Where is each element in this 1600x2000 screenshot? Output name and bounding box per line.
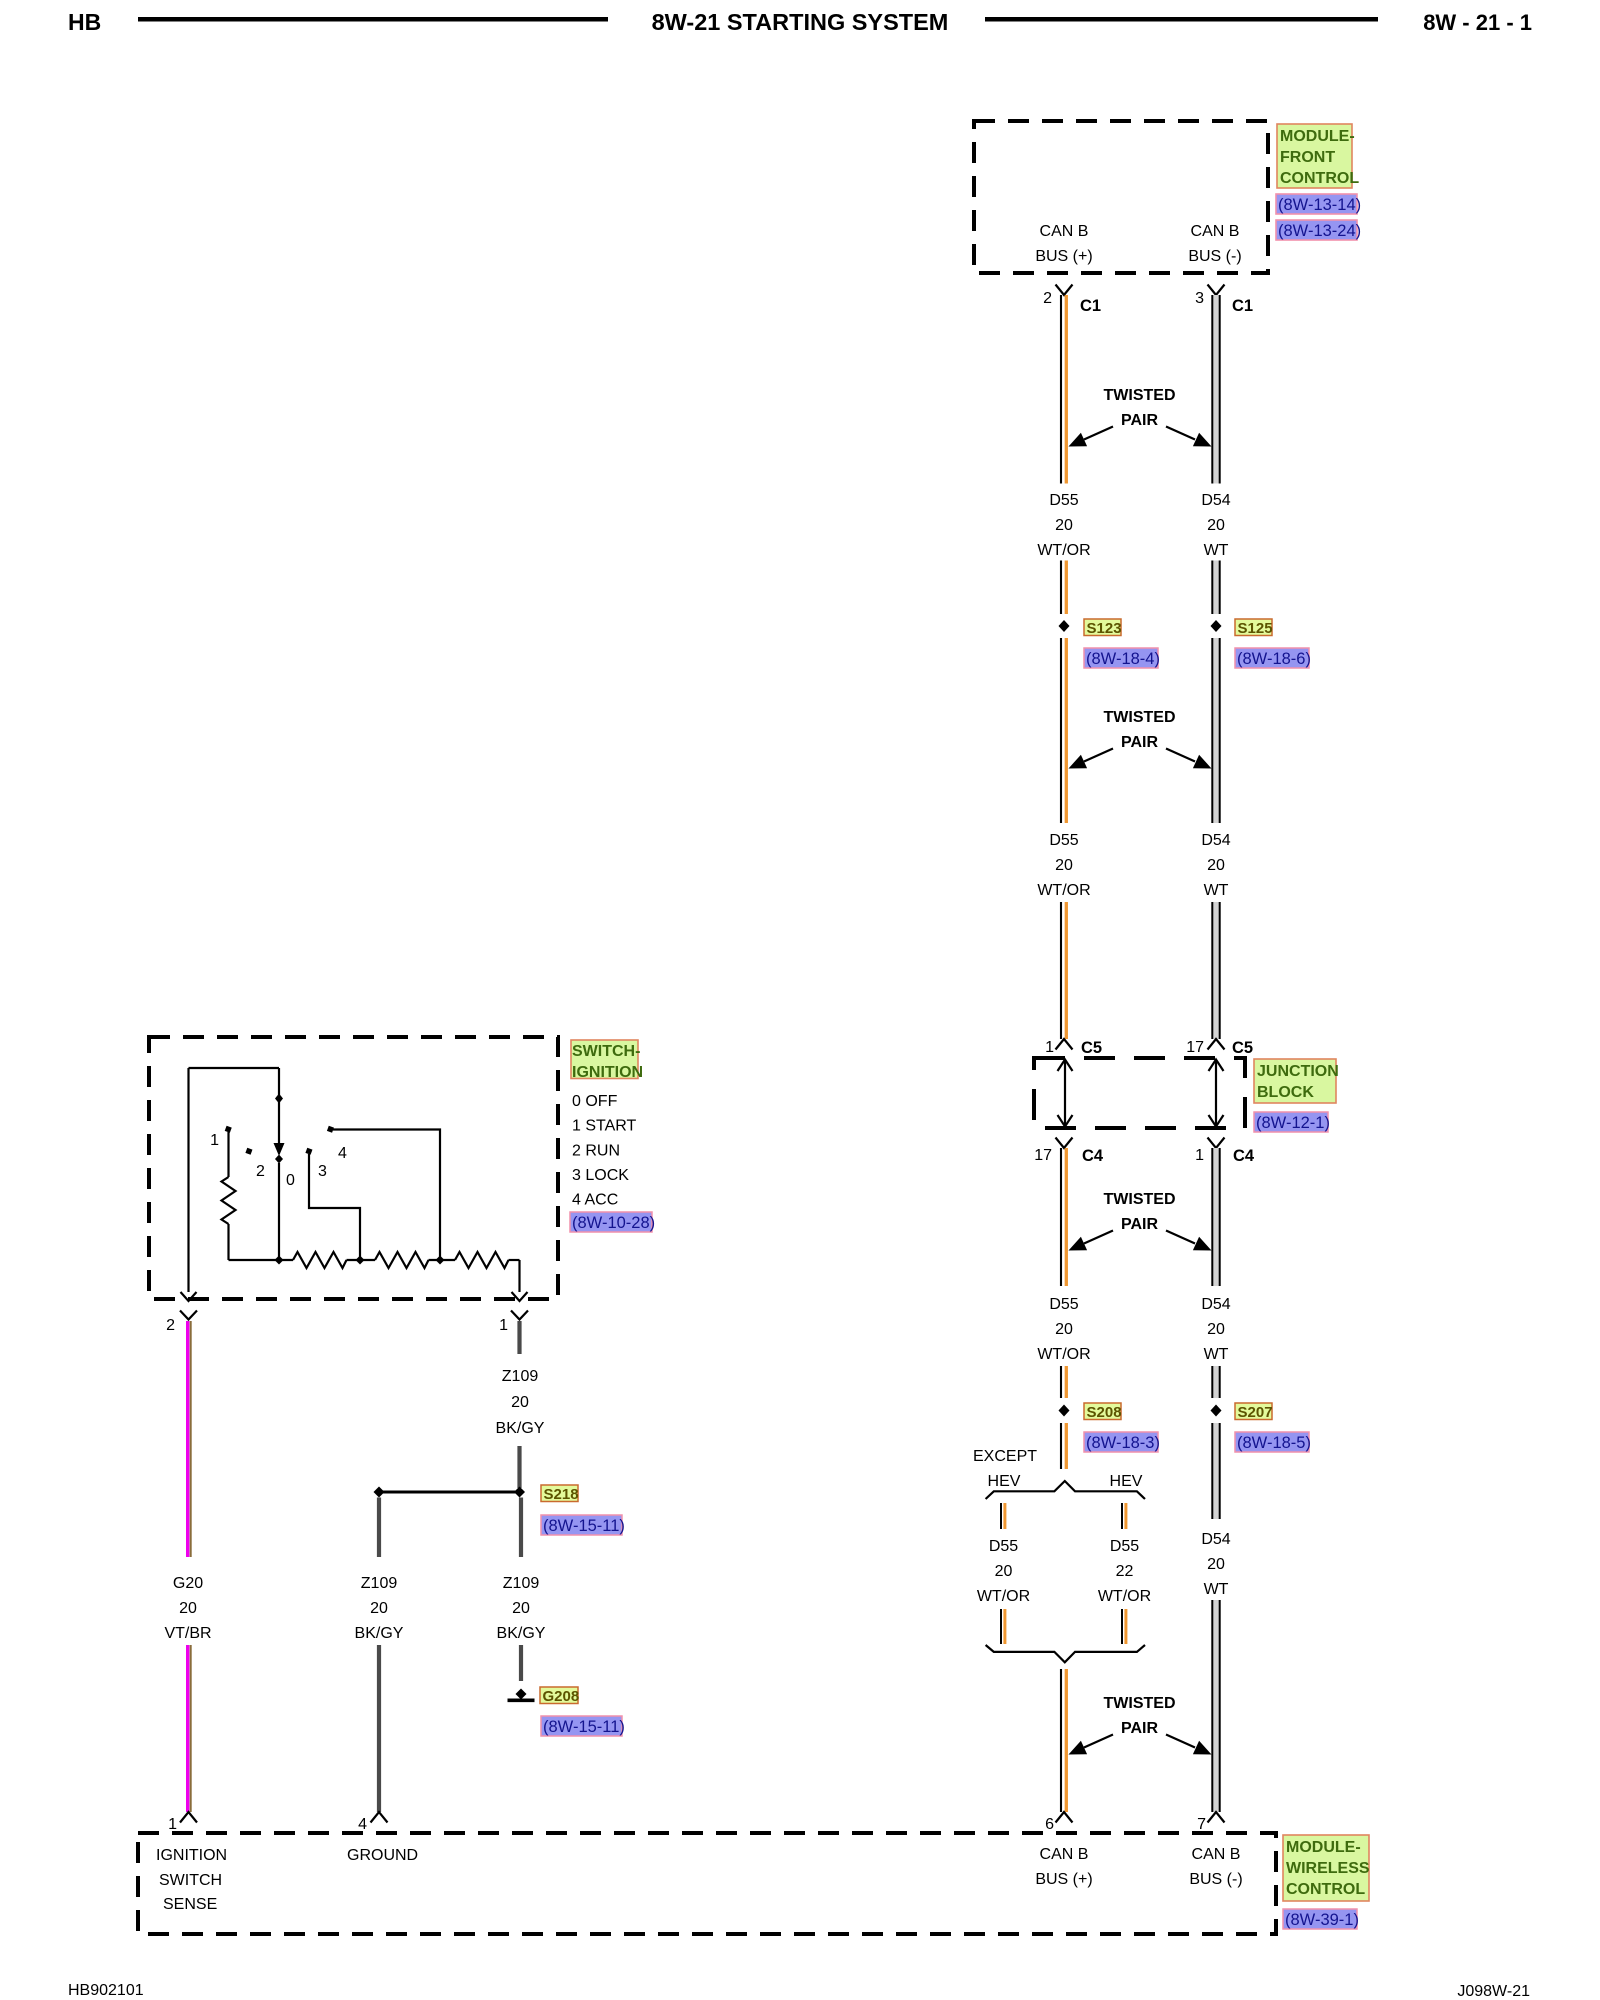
component name SWITCH-IGNITION — [571, 1040, 643, 1081]
svg-text:TWISTED: TWISTED — [1104, 387, 1176, 404]
reference (8W-18-3) — [1084, 1432, 1160, 1452]
wire D55 WT/OR segment A (pin2 C1 down) — [1061, 295, 1066, 484]
connector fork pin 1 C4 — [1208, 1138, 1225, 1149]
svg-text:1: 1 — [210, 1132, 219, 1149]
svg-text:WT: WT — [1204, 542, 1229, 559]
pin label CAN B BUS (-) (bottom) — [1189, 1846, 1242, 1888]
component name MODULE-WIRELESS CONTROL — [1283, 1835, 1370, 1901]
wire D55 WT/OR segment H (merged, to pin 6) — [1061, 1669, 1066, 1812]
ground G208 bar — [508, 1699, 535, 1703]
svg-text:3 LOCK: 3 LOCK — [572, 1167, 629, 1184]
connector fork pin 7 — [1208, 1812, 1225, 1823]
connector fork switch pin 2 — [180, 1311, 197, 1320]
svg-text:20: 20 — [512, 1600, 530, 1617]
wire Z109 BK/GY segment B — [517, 1446, 521, 1488]
svg-text:20: 20 — [1055, 517, 1073, 534]
svg-text:WT: WT — [1204, 882, 1229, 899]
svg-text:FRONT: FRONT — [1280, 149, 1335, 166]
wire D55 WT/OR segment B — [1061, 561, 1066, 615]
switch pin 1 internal wire — [518, 1260, 520, 1292]
svg-text:S218: S218 — [544, 1486, 579, 1503]
svg-text:CAN B: CAN B — [1191, 223, 1240, 240]
svg-text:(8W-39-1): (8W-39-1) — [1285, 1911, 1359, 1929]
svg-text:CONTROL: CONTROL — [1286, 1881, 1365, 1898]
svg-text:J098W-21: J098W-21 — [1457, 1983, 1530, 2000]
HEV branch wire right upper segment — [1122, 1503, 1126, 1529]
wire D54 WT segment D — [1212, 902, 1219, 1039]
wire label D55 22 WT/OR (right branch) — [1098, 1538, 1151, 1605]
svg-text:2 RUN: 2 RUN — [572, 1142, 620, 1159]
junction block dashed box — [1034, 1058, 1245, 1128]
splice S208 diamond — [1059, 1405, 1070, 1417]
svg-text:(8W-13-24): (8W-13-24) — [1278, 222, 1361, 240]
switch contact 1 dot — [225, 1126, 232, 1133]
module-front control pin label CAN B BUS (-) — [1188, 223, 1241, 265]
svg-text:SWITCH: SWITCH — [159, 1872, 222, 1889]
switch position legend — [572, 1093, 637, 1209]
resistor R2 (horizontal zigzag) — [293, 1252, 347, 1268]
ground label G208 — [540, 1687, 579, 1705]
svg-text:Z109: Z109 — [503, 1575, 540, 1592]
svg-text:(8W-18-5): (8W-18-5) — [1237, 1434, 1311, 1452]
switch wiper arrowhead — [274, 1143, 285, 1156]
wire label D55 20 WT/OR (stack 2) — [1037, 832, 1090, 899]
svg-text:(8W-15-11): (8W-15-11) — [543, 1517, 625, 1535]
svg-text:C1: C1 — [1080, 297, 1101, 315]
junction diamond rail at contact 3 branch — [356, 1256, 365, 1265]
switch contact 2 dot — [245, 1148, 252, 1155]
connector fork pin 3 C1 — [1208, 285, 1225, 296]
splice S207 diamond — [1211, 1405, 1222, 1417]
svg-text:Z109: Z109 — [361, 1575, 398, 1592]
svg-text:20: 20 — [995, 1563, 1013, 1580]
svg-text:1: 1 — [1195, 1147, 1204, 1164]
twisted pair callout 3 — [1069, 1191, 1212, 1251]
svg-text:TWISTED: TWISTED — [1104, 1191, 1176, 1208]
svg-text:BLOCK: BLOCK — [1257, 1084, 1314, 1101]
splice label S123 — [1084, 619, 1122, 637]
wire label Z109 20 BK/GY (upper) — [496, 1368, 545, 1437]
svg-text:D54: D54 — [1201, 1296, 1230, 1313]
svg-text:20: 20 — [1207, 1321, 1225, 1338]
svg-text:(8W-18-6): (8W-18-6) — [1237, 650, 1311, 668]
svg-text:WT: WT — [1204, 1346, 1229, 1363]
svg-text:C4: C4 — [1082, 1147, 1104, 1165]
svg-text:20: 20 — [370, 1600, 388, 1617]
svg-text:WT/OR: WT/OR — [1037, 882, 1090, 899]
svg-text:SENSE: SENSE — [163, 1896, 217, 1913]
svg-text:BK/GY: BK/GY — [496, 1420, 545, 1437]
reference (8W-15-11) (G208) — [541, 1716, 625, 1736]
svg-text:PAIR: PAIR — [1121, 734, 1158, 751]
svg-text:(8W-10-28): (8W-10-28) — [572, 1214, 655, 1232]
svg-text:Z109: Z109 — [502, 1368, 539, 1385]
svg-text:(8W-15-11): (8W-15-11) — [543, 1718, 625, 1736]
HEV branch wire left lower segment — [1001, 1609, 1005, 1644]
svg-text:20: 20 — [1055, 1321, 1073, 1338]
svg-text:HB: HB — [68, 9, 101, 35]
svg-text:22: 22 — [1116, 1563, 1134, 1580]
svg-text:0: 0 — [286, 1172, 295, 1189]
svg-text:BUS (-): BUS (-) — [1189, 1871, 1242, 1888]
svg-text:1 START: 1 START — [572, 1118, 637, 1135]
connector fork pin 1 C5 — [1056, 1039, 1073, 1050]
wire label D54 20 WT (stack 4) — [1201, 1531, 1230, 1598]
svg-text:CAN B: CAN B — [1040, 1846, 1089, 1863]
svg-text:GROUND: GROUND — [347, 1847, 418, 1864]
wire G20 VT/BR segment B — [188, 1645, 191, 1812]
svg-text:3: 3 — [318, 1163, 327, 1180]
svg-text:(8W-13-14): (8W-13-14) — [1278, 196, 1361, 214]
arrowhead into box edge (pin 1) — [512, 1292, 528, 1301]
svg-text:G20: G20 — [173, 1575, 203, 1592]
svg-text:1: 1 — [168, 1816, 177, 1833]
splice label S208 — [1084, 1403, 1122, 1421]
switch top rail wire — [189, 1067, 280, 1069]
wire label D54 20 WT (stack 1) — [1201, 492, 1230, 559]
twisted pair callout 1 — [1069, 387, 1212, 447]
svg-text:20: 20 — [1207, 1556, 1225, 1573]
wire label D54 20 WT (stack 2) — [1201, 832, 1230, 899]
wire D55 WT/OR segment E (below C4) — [1061, 1148, 1066, 1286]
connector fork pin 2 C1 — [1056, 285, 1073, 296]
svg-text:1: 1 — [499, 1317, 508, 1334]
reference (8W-13-24) — [1276, 220, 1361, 240]
wire label D55 20 WT/OR (left branch) — [977, 1538, 1030, 1605]
svg-text:4 ACC: 4 ACC — [572, 1192, 618, 1209]
svg-text:WT: WT — [1204, 1581, 1229, 1598]
switch-ignition dashed box — [149, 1037, 558, 1299]
svg-text:VT/BR: VT/BR — [164, 1625, 211, 1642]
resistor R1 (vertical zigzag) — [222, 1177, 236, 1224]
junction block internal through-arrow left — [1058, 1060, 1073, 1127]
svg-text:C4: C4 — [1233, 1147, 1255, 1165]
pin label CAN B BUS (+) (bottom) — [1035, 1846, 1092, 1888]
svg-text:8W - 21 - 1: 8W - 21 - 1 — [1423, 10, 1532, 35]
header rule right — [985, 17, 1378, 22]
splice S125 diamond — [1211, 620, 1222, 632]
svg-text:1: 1 — [1045, 1039, 1054, 1056]
svg-text:S208: S208 — [1087, 1404, 1122, 1421]
wire D54 WT segment A (pin3 C1 down) — [1212, 295, 1219, 484]
svg-text:PAIR: PAIR — [1121, 412, 1158, 429]
svg-text:IGNITION: IGNITION — [572, 1064, 643, 1081]
svg-text:EXCEPT: EXCEPT — [973, 1448, 1037, 1465]
svg-text:HB902101: HB902101 — [68, 1982, 144, 1999]
svg-text:BUS (+): BUS (+) — [1035, 248, 1092, 265]
wire from contact 4 right and down — [333, 1130, 440, 1261]
junction diamond on wiper feed — [275, 1094, 283, 1104]
switch pin 2 internal wire — [187, 1068, 189, 1292]
svg-text:IGNITION: IGNITION — [156, 1847, 227, 1864]
svg-text:CAN B: CAN B — [1192, 1846, 1241, 1863]
reference (8W-39-1) — [1283, 1909, 1359, 1929]
svg-text:C5: C5 — [1232, 1039, 1253, 1057]
wire label Z109 20 BK/GY (left branch) — [355, 1575, 404, 1642]
splice label S207 — [1235, 1403, 1273, 1421]
svg-text:S207: S207 — [1238, 1404, 1273, 1421]
module-wireless control dashed box — [138, 1833, 1276, 1934]
svg-text:2: 2 — [256, 1163, 265, 1180]
reference (8W-18-5) — [1235, 1432, 1311, 1452]
wire label D55 20 WT/OR (stack 3) — [1037, 1296, 1090, 1363]
svg-text:20: 20 — [1055, 857, 1073, 874]
svg-text:17: 17 — [1186, 1039, 1204, 1056]
splice S123 diamond — [1059, 620, 1070, 632]
wire Z109 BK/GY left branch lower segment (to pin 4) — [377, 1645, 381, 1812]
svg-text:C5: C5 — [1081, 1039, 1102, 1057]
wire D54 WT segment B — [1212, 561, 1219, 615]
twisted pair callout 4 — [1069, 1695, 1212, 1755]
splice S218 diamond left — [374, 1487, 385, 1498]
svg-text:17: 17 — [1034, 1147, 1052, 1164]
wire label Z109 20 BK/GY (right branch) — [497, 1575, 546, 1642]
splice label S218 — [541, 1485, 579, 1503]
splice label S125 — [1235, 619, 1273, 637]
wire D54 WT segment E (below C4) — [1212, 1148, 1219, 1286]
arrowhead into box edge (pin 2) — [181, 1292, 197, 1301]
wire split brace — [986, 1481, 1145, 1499]
svg-text:D55: D55 — [989, 1538, 1018, 1555]
switch contact 3 dot — [305, 1148, 312, 1155]
connector fork pin 4 (bottom box) — [371, 1812, 388, 1823]
svg-text:4: 4 — [338, 1145, 347, 1162]
wire from contact 1 to resistor — [227, 1132, 229, 1177]
reference (8W-13-14) — [1276, 194, 1361, 214]
svg-text:20: 20 — [1207, 857, 1225, 874]
svg-text:JUNCTION: JUNCTION — [1257, 1063, 1339, 1080]
svg-text:SWITCH-: SWITCH- — [572, 1043, 640, 1060]
switch bottom rail left segment — [229, 1259, 294, 1261]
wire Z109 BK/GY left branch upper segment — [377, 1498, 381, 1558]
connector fork pin 17 C4 — [1056, 1138, 1073, 1149]
connector fork switch pin 1 — [511, 1311, 528, 1320]
wire merge brace — [986, 1645, 1145, 1662]
wire label G20 20 VT/BR — [164, 1575, 211, 1642]
svg-text:8W-21 STARTING SYSTEM: 8W-21 STARTING SYSTEM — [652, 9, 949, 35]
svg-text:2: 2 — [1043, 290, 1052, 307]
reference (8W-12-1) — [1254, 1112, 1330, 1132]
svg-text:PAIR: PAIR — [1121, 1720, 1158, 1737]
svg-text:D55: D55 — [1110, 1538, 1139, 1555]
twisted pair callout 2 — [1069, 709, 1212, 769]
bottom rail segment 4 — [509, 1259, 520, 1261]
reference (8W-10-28) — [570, 1212, 655, 1232]
wire D55 WT/OR segment D — [1061, 902, 1066, 1039]
svg-text:WT/OR: WT/OR — [1037, 542, 1090, 559]
svg-text:BUS (+): BUS (+) — [1035, 1871, 1092, 1888]
connector fork pin 17 C5 — [1208, 1039, 1225, 1050]
svg-text:HEV: HEV — [988, 1473, 1021, 1490]
HEV branch wire left upper segment — [1001, 1503, 1005, 1529]
svg-text:BUS (-): BUS (-) — [1188, 248, 1241, 265]
resistor R4 (horizontal zigzag) — [455, 1252, 509, 1268]
svg-text:D54: D54 — [1201, 492, 1230, 509]
svg-text:20: 20 — [179, 1600, 197, 1617]
svg-text:PAIR: PAIR — [1121, 1216, 1158, 1233]
wire Z109 BK/GY segment A (from switch pin 1) — [517, 1321, 521, 1354]
svg-text:C1: C1 — [1232, 297, 1253, 315]
svg-text:S123: S123 — [1087, 620, 1122, 637]
wire Z109 BK/GY right branch middle segment — [519, 1498, 523, 1558]
svg-text:G208: G208 — [543, 1688, 580, 1705]
svg-text:D55: D55 — [1049, 1296, 1078, 1313]
svg-text:BK/GY: BK/GY — [355, 1625, 404, 1642]
svg-text:D54: D54 — [1201, 832, 1230, 849]
module-front control dashed box — [974, 121, 1268, 273]
component name MODULE-FRONT CONTROL — [1277, 124, 1359, 188]
header rule left — [138, 17, 608, 22]
junction diamond rail at wiper — [275, 1256, 284, 1265]
svg-text:3: 3 — [1195, 290, 1204, 307]
wire label D54 20 WT (stack 3) — [1201, 1296, 1230, 1363]
wire from contact 3 down and over — [309, 1154, 360, 1260]
svg-text:D55: D55 — [1049, 832, 1078, 849]
svg-text:TWISTED: TWISTED — [1104, 1695, 1176, 1712]
reference (8W-15-11) (S218) — [541, 1515, 625, 1535]
svg-text:S125: S125 — [1238, 620, 1273, 637]
wire D54 WT segment G — [1212, 1423, 1219, 1519]
connector fork pin 1 (bottom box) — [180, 1812, 197, 1823]
svg-text:CAN B: CAN B — [1040, 223, 1089, 240]
svg-text:WT/OR: WT/OR — [1037, 1346, 1090, 1363]
connector fork pin 6 — [1056, 1812, 1073, 1823]
svg-text:(8W-18-3): (8W-18-3) — [1086, 1434, 1160, 1452]
switch wiper feed wire — [278, 1068, 280, 1143]
reference (8W-18-6) — [1235, 648, 1311, 668]
wire Z109 BK/GY right branch lower segment (to ground) — [519, 1645, 523, 1681]
bottom rail segment 2 — [347, 1259, 376, 1261]
svg-text:WT/OR: WT/OR — [977, 1588, 1030, 1605]
switch contact 4 dot — [327, 1126, 334, 1133]
svg-text:WIRELESS: WIRELESS — [1286, 1860, 1370, 1877]
svg-text:0 OFF: 0 OFF — [572, 1093, 618, 1110]
switch wiper tip diamond (position 0) — [275, 1155, 283, 1164]
svg-text:7: 7 — [1197, 1816, 1206, 1833]
switch common wire below wiper — [278, 1163, 280, 1260]
svg-text:4: 4 — [358, 1816, 367, 1833]
module-front control pin label CAN B BUS (+) — [1035, 223, 1092, 265]
svg-text:HEV: HEV — [1110, 1473, 1143, 1490]
svg-text:6: 6 — [1045, 1816, 1054, 1833]
wire from resistor R1 to bottom rail — [227, 1224, 229, 1260]
wire D55 WT/OR segment C — [1061, 638, 1066, 823]
wire D54 WT segment H (to pin 7) — [1212, 1600, 1219, 1812]
wire label D55 20 WT/OR (stack 1) — [1037, 492, 1090, 559]
svg-text:20: 20 — [511, 1394, 529, 1411]
svg-text:BK/GY: BK/GY — [497, 1625, 546, 1642]
svg-text:CONTROL: CONTROL — [1280, 170, 1359, 187]
wire D55 WT/OR segment F — [1061, 1366, 1066, 1398]
HEV branch wire right lower segment — [1122, 1609, 1126, 1644]
svg-text:(8W-18-4): (8W-18-4) — [1086, 650, 1160, 668]
wire D55 WT/OR segment G — [1061, 1423, 1066, 1469]
svg-text:D54: D54 — [1201, 1531, 1230, 1548]
pin label IGNITION SWITCH SENSE — [156, 1847, 227, 1913]
svg-text:MODULE-: MODULE- — [1280, 128, 1355, 145]
junction diamond rail at contact 4 branch — [436, 1256, 445, 1265]
reference (8W-18-4) — [1084, 648, 1160, 668]
svg-text:(8W-12-1): (8W-12-1) — [1256, 1114, 1330, 1132]
wire D54 WT segment C — [1212, 638, 1219, 823]
ground G208 diamond — [516, 1689, 527, 1700]
junction block internal through-arrow right — [1209, 1060, 1224, 1127]
wire G20 VT/BR segment A — [188, 1321, 191, 1557]
svg-text:D55: D55 — [1049, 492, 1078, 509]
svg-text:2: 2 — [166, 1317, 175, 1334]
svg-text:20: 20 — [1207, 517, 1225, 534]
component name JUNCTION BLOCK — [1254, 1059, 1339, 1103]
splice S218 crossbar — [379, 1491, 520, 1494]
svg-text:WT/OR: WT/OR — [1098, 1588, 1151, 1605]
bottom rail segment 3 — [429, 1259, 456, 1261]
svg-text:TWISTED: TWISTED — [1104, 709, 1176, 726]
resistor R3 (horizontal zigzag) — [375, 1252, 429, 1268]
splice S218 diamond right — [514, 1487, 525, 1498]
wire D54 WT segment F — [1212, 1366, 1219, 1398]
svg-text:MODULE-: MODULE- — [1286, 1839, 1361, 1856]
